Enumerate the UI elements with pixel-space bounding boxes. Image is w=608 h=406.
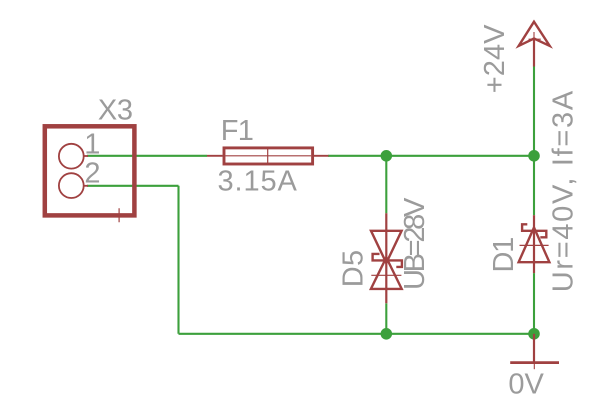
wire net N2 pin2 horizontal bbox=[87, 185, 179, 187]
suppressor diode D5 top triangle bbox=[371, 231, 402, 263]
fuse F1 origin tick bbox=[267, 148, 269, 163]
ground 0V bar bbox=[510, 361, 559, 364]
svg-text:0V: 0V bbox=[508, 368, 544, 400]
svg-text:D1: D1 bbox=[488, 238, 520, 273]
svg-text:1: 1 bbox=[84, 128, 100, 160]
fuse F1 right lead bbox=[314, 155, 329, 157]
svg-text:+24V: +24V bbox=[479, 24, 511, 93]
fuse F1 left lead bbox=[207, 155, 223, 157]
svg-text:F1: F1 bbox=[221, 115, 253, 147]
junction dot at D5 bottom node bbox=[381, 328, 393, 340]
+24V supply arrow bbox=[519, 22, 550, 46]
fuse F1 body bbox=[224, 148, 313, 164]
ground 0V lead bbox=[533, 334, 535, 363]
connector X3 pin 2 stub bbox=[84, 185, 88, 187]
wire net N1 +24V vertical bbox=[533, 67, 535, 216]
fuse F1 mid line bbox=[225, 155, 311, 157]
suppressor diode D5 zener bar with hooks bbox=[373, 254, 402, 267]
wire net N1 pin1 to fuse bbox=[87, 155, 207, 157]
diode D1 triangle bbox=[519, 228, 550, 263]
diode D1 cathode bar with hooks bbox=[522, 224, 546, 237]
wire net N2 bottom horizontal bbox=[179, 333, 535, 335]
ground 0V origin tick bbox=[533, 357, 535, 369]
connector X3 body bbox=[45, 126, 135, 215]
suppressor diode D5 lead bbox=[385, 213, 387, 303]
connector X3 pin 1 circle bbox=[59, 144, 84, 169]
wire net N1 fuse to +24V column bbox=[328, 155, 534, 157]
diode D1 lead bbox=[533, 215, 535, 273]
connector X3 pin 1 stub bbox=[84, 155, 88, 157]
diode D1 thin chord bbox=[520, 244, 549, 246]
svg-text:X3: X3 bbox=[98, 94, 133, 126]
svg-text:UB=28V: UB=28V bbox=[399, 197, 431, 290]
wire net N2 D5 bottom bbox=[385, 303, 387, 334]
junction dot at ground node bbox=[528, 328, 540, 340]
svg-text:Ur=40V, If=3A: Ur=40V, If=3A bbox=[548, 89, 580, 292]
wire net N2 D1 bottom bbox=[533, 273, 535, 334]
svg-text:3.15A: 3.15A bbox=[218, 166, 298, 198]
suppressor diode D5 bottom triangle bbox=[371, 258, 402, 289]
connector X3 origin cross bbox=[111, 208, 127, 222]
svg-text:D5: D5 bbox=[338, 249, 370, 287]
svg-text:2: 2 bbox=[84, 157, 100, 189]
wire net N2 vertical drop bbox=[177, 186, 179, 334]
+24V origin cross bbox=[529, 32, 541, 46]
junction dot at fuse/D5 node bbox=[381, 150, 393, 162]
+24V lead bbox=[533, 39, 535, 67]
wire net N1 vertical to D5 bbox=[385, 156, 387, 214]
connector X3 pin 2 circle bbox=[59, 173, 84, 198]
suppressor diode D5 bottom triangle thin chord bbox=[371, 274, 401, 276]
junction dot at +24V/D1 node bbox=[528, 150, 540, 162]
